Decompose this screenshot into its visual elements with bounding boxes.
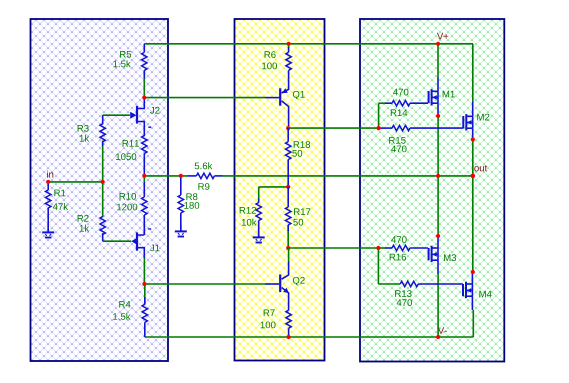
junction M1 source <box>436 114 440 118</box>
junction J2 drain node <box>142 96 146 100</box>
transistor Q2 NPN <box>280 248 305 310</box>
junction R11/R10 node <box>142 174 146 178</box>
wire M3 source to V- rail <box>437 274 439 337</box>
junction J1 source node <box>142 282 146 286</box>
resistor R8 180 <box>178 176 199 232</box>
wire R3-R2 rail with in junction <box>102 141 104 218</box>
resistor R7 100 <box>261 309 292 337</box>
ground (R12) <box>253 230 265 243</box>
output stage region box (green hatch) <box>360 19 504 362</box>
node out <box>474 165 487 171</box>
wire V+ rail right drop to M2 <box>472 44 474 102</box>
MOSFET M1 <box>429 44 455 116</box>
wire J1 gate <box>103 240 132 242</box>
junction in rail <box>101 180 105 184</box>
junction in node <box>46 180 50 184</box>
junction R8 top <box>179 174 183 178</box>
junction Q1 collector node <box>286 126 290 130</box>
resistor R16 470 <box>378 236 428 260</box>
wire R16 junction drop to R13 <box>377 248 379 284</box>
driver stage region box (yellow hatch) <box>235 19 325 361</box>
wire J1 source drop <box>143 258 145 284</box>
junction R16/R13 left <box>376 246 380 250</box>
wire out rail to out node <box>438 175 473 177</box>
junction M2 source <box>471 137 475 141</box>
ground (R1) <box>42 226 54 238</box>
JFET J1 <box>131 224 159 258</box>
wire mid rail (R11/R10 node to R8,R9) <box>144 175 187 177</box>
JFET J2 <box>130 98 159 135</box>
resistor R5 1.5k <box>113 44 147 98</box>
wire V+ top rail <box>144 43 473 45</box>
wire M2 source to out node <box>472 140 474 176</box>
resistor R9 5.6k <box>188 162 223 190</box>
ground (R8) <box>175 225 187 237</box>
MOSFET M3 <box>429 236 457 274</box>
node in <box>47 171 53 178</box>
resistor R10 1200 <box>117 176 147 235</box>
junction M4 drain <box>471 270 475 274</box>
resistor R11 1050 <box>116 134 147 176</box>
node V- <box>438 327 447 334</box>
wire out rail to M3 drain <box>437 176 439 236</box>
junction R12 node <box>286 185 290 189</box>
junction out node <box>471 174 476 179</box>
wire R12 tap <box>259 186 289 188</box>
resistor R12 10k <box>240 199 262 238</box>
resistor R17 50 <box>286 187 311 248</box>
wire R9 to out rail across driver box <box>223 175 439 177</box>
junction R6 top <box>287 42 291 46</box>
wire M1 source column to out rail <box>437 116 439 176</box>
junction R14/R15 left <box>377 126 381 130</box>
resistor R1 47k <box>46 182 69 233</box>
resistor R2 1k <box>78 215 106 235</box>
wire out node to M4 drain <box>472 176 474 272</box>
wire Q1 collector to R14/R15 junction <box>288 127 378 129</box>
transistor Q1 PNP <box>280 80 305 126</box>
junction out rail M1 column <box>436 174 440 178</box>
junction Q2 collector node <box>286 246 290 250</box>
wire J2 gate <box>103 114 130 116</box>
input stage region box (blue hatch) <box>31 19 169 361</box>
wire M4 source to V- rail <box>472 310 474 337</box>
wire V- bottom rail <box>145 336 474 338</box>
wire Q2 collector to R16/R13 junction <box>288 247 378 249</box>
resistor R4 1.5k <box>113 284 147 331</box>
junction R7 bottom V- rail <box>287 335 291 339</box>
resistor R3 1k <box>78 124 106 146</box>
junction V+ node <box>436 42 440 46</box>
node V+ <box>437 33 448 40</box>
MOSFET M4 <box>463 272 492 310</box>
junction M3 source V- rail <box>436 335 440 339</box>
resistor R6 100 <box>262 44 291 80</box>
wire J1 source to Q2 base <box>144 283 265 285</box>
resistor R15 470 <box>379 125 464 152</box>
resistor R18 50 <box>286 128 311 187</box>
wire R14 junction riser <box>378 103 380 128</box>
wire J2 drain to Q1 base <box>144 97 265 99</box>
resistor R14 470 <box>379 89 428 116</box>
resistor R13 470 <box>395 281 463 306</box>
MOSFET M2 <box>463 102 489 140</box>
wire R4 bottom drop <box>144 331 146 338</box>
junction M3 drain <box>436 234 440 238</box>
wire in node to rail <box>48 181 102 183</box>
